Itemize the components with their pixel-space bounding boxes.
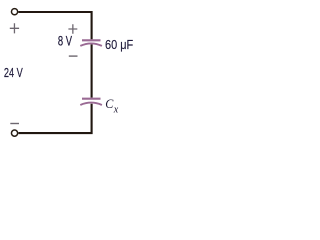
svg-text:60 μF: 60 μF [105,37,133,52]
minus sign of 8 V across C1 [69,55,78,57]
plus sign of 24 V source [10,23,19,33]
capacitor C1 60uF straight plate [82,39,101,41]
capacitor Cx curved plate [80,103,102,105]
svg-text:8 V: 8 V [58,34,73,49]
minus sign of 24 V source [10,123,19,125]
wire top from positive terminal to top-right corner and down to C1 [18,12,91,39]
wire between capacitor C1 and capacitor Cx [91,44,93,97]
terminal positive (open circle) [11,9,17,15]
wire from Cx down to bottom-right corner and left to negative terminal [18,104,91,133]
plus sign of 8 V across C1 [68,24,77,33]
svg-text:24 V: 24 V [4,65,23,80]
svg-text:x: x [113,104,119,115]
capacitor C1 60uF curved plate [80,43,102,46]
capacitor Cx straight plate [82,98,101,100]
terminal negative (open circle) [11,130,17,136]
